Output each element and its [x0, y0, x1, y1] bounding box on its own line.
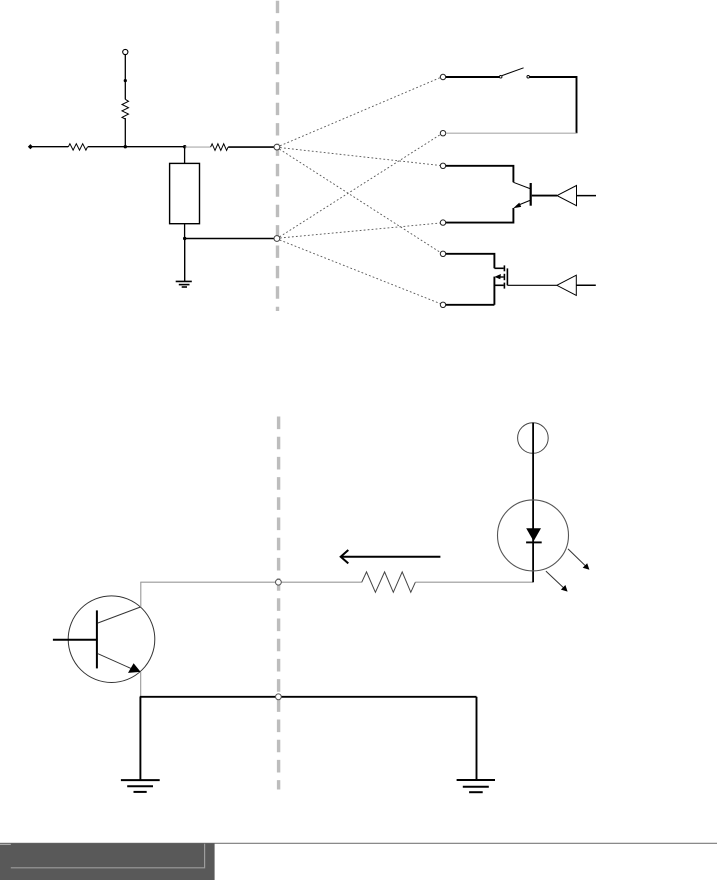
- pin P4: [440, 220, 445, 225]
- wire: [476, 697, 478, 780]
- LED D1 (circle): [498, 500, 569, 571]
- terminal T3 (lamp circle): [518, 423, 549, 454]
- wire (gray, collector rail): [140, 581, 361, 583]
- dotted link node B to P6: [280, 240, 441, 304]
- resistor R4 (box): [170, 147, 200, 239]
- wire: [530, 77, 577, 133]
- wire (gray, to LED): [415, 581, 533, 583]
- dotted link node B to P2: [280, 134, 441, 237]
- dotted link node A to P5: [279, 149, 440, 253]
- wire: [139, 697, 141, 780]
- current arrow: [341, 550, 441, 563]
- transistor Q1 collector lead: [513, 182, 530, 188]
- node A: [274, 144, 280, 150]
- transistor Q2 base lead: [53, 639, 97, 641]
- footer tab inner border: [11, 844, 205, 868]
- wire: [124, 55, 126, 100]
- terminal T1 (pull-up supply, open circle): [123, 49, 128, 54]
- buffer U2 (triangle): [507, 275, 595, 295]
- wire: [185, 238, 274, 240]
- wire: [30, 146, 68, 148]
- transistor Q1 base bar: [530, 183, 532, 206]
- ground GND2: [121, 780, 160, 792]
- node D: [276, 694, 282, 700]
- junction: [124, 79, 127, 82]
- wire (gray emitter down): [140, 672, 142, 697]
- wire: [446, 166, 514, 183]
- node B: [274, 236, 280, 242]
- LED light arrow 2: [546, 571, 568, 592]
- wire: [228, 146, 274, 148]
- wire: [184, 239, 186, 282]
- dotted link node B to P4: [280, 223, 440, 238]
- resistor R5: [362, 572, 416, 592]
- ground GND1: [176, 281, 192, 287]
- wire: [446, 254, 495, 268]
- pin P5: [440, 251, 445, 256]
- terminal T2 (left input dot): [28, 144, 33, 149]
- wire: [446, 76, 500, 78]
- resistor R1: [122, 99, 129, 119]
- wire (LED anode): [532, 423, 534, 583]
- buffer U1 (triangle): [532, 186, 596, 206]
- wire (gray): [185, 146, 211, 148]
- wire (emitter rail): [140, 696, 477, 698]
- dotted link node A to P1: [280, 78, 440, 146]
- wire: [124, 118, 126, 147]
- transistor Q2 (circle): [68, 596, 155, 683]
- transistor Q2 collector lead: [98, 607, 141, 623]
- node C: [276, 579, 282, 585]
- junction: [183, 237, 186, 240]
- resistor R2: [68, 144, 87, 150]
- LED D1 (cathode bar): [526, 541, 542, 543]
- footer tab highlight segment: [0, 843, 11, 845]
- dotted link node A to P3: [280, 148, 440, 166]
- pin P2: [440, 131, 445, 136]
- LED light arrow 1: [568, 549, 589, 570]
- wire: [446, 208, 514, 223]
- wire (gray return): [446, 132, 577, 134]
- switch S1: [499, 68, 529, 78]
- mosfet M1: [494, 265, 507, 288]
- junction: [124, 145, 127, 148]
- separator dashed line (bottom): [277, 417, 280, 790]
- transistor Q2 emitter lead: [98, 654, 134, 670]
- footer rule: [0, 842, 717, 844]
- pin P3: [440, 163, 445, 168]
- wire (gray collector up): [140, 582, 142, 607]
- ground GND3: [457, 780, 495, 792]
- transistor Q2 base bar: [96, 610, 98, 668]
- wire: [493, 277, 495, 305]
- junction: [183, 145, 186, 148]
- wire: [446, 304, 495, 306]
- transistor Q1 emitter arrow: [513, 203, 521, 209]
- pin P1: [440, 74, 445, 79]
- pin P6: [440, 302, 445, 307]
- transistor Q2 emitter arrow: [128, 663, 141, 673]
- LED D1 (diode triangle): [526, 528, 541, 541]
- footer tab (dark): [0, 843, 215, 880]
- resistor R3: [211, 144, 228, 151]
- separator dashed line (top): [276, 1, 279, 311]
- transistor Q1 emitter lead: [517, 200, 531, 206]
- wire: [88, 146, 185, 148]
